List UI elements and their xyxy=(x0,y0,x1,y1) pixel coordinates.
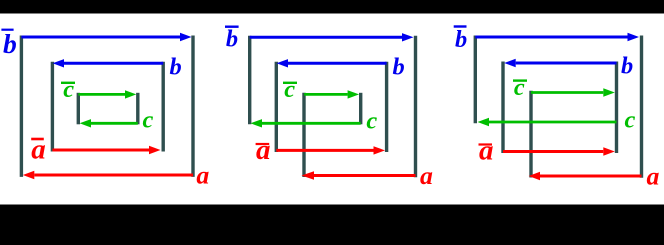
wire b-end down to abar-head d2 xyxy=(385,62,388,152)
arrow b d1 xyxy=(64,62,163,65)
arrow c-bar d1 xyxy=(78,93,125,96)
wire left vertical d3 xyxy=(474,36,477,124)
arrow a d3 xyxy=(540,175,642,178)
wire cbar-head down to c-end d2 xyxy=(359,93,362,125)
arrow a d2 xyxy=(314,174,416,177)
arrow b-bar d3 xyxy=(475,36,627,39)
wire cbar-start down to a-head d3 xyxy=(529,91,532,178)
svg-text:b: b xyxy=(3,28,17,59)
svg-text:c: c xyxy=(63,76,74,103)
arrow b d2 xyxy=(288,62,387,65)
arrow b-bar d2 xyxy=(250,36,402,39)
wire cbar-start down to c-head d1 xyxy=(77,93,80,125)
wire cbar-head down to c-end d1 xyxy=(136,93,139,125)
svg-text:a: a xyxy=(647,161,660,190)
bottom black bar xyxy=(0,205,664,245)
svg-text:b: b xyxy=(393,54,405,81)
svg-text:c: c xyxy=(143,106,154,133)
wire b-head down to abar-start d2 xyxy=(275,62,278,152)
arrow a-bar d1 xyxy=(52,149,149,152)
top black bar xyxy=(0,0,664,14)
svg-text:b: b xyxy=(170,54,182,81)
arrow b d3 xyxy=(516,62,617,65)
svg-text:a: a xyxy=(196,161,209,190)
svg-text:a: a xyxy=(256,134,271,166)
wire cbar-start down to a-head d2 xyxy=(302,93,305,177)
arrow c d3 xyxy=(489,121,617,124)
arrow a-bar d2 xyxy=(276,149,373,152)
arrow a-bar d3 xyxy=(503,150,603,153)
arrow a d1 xyxy=(34,174,193,177)
svg-text:a: a xyxy=(479,135,494,167)
arrow c d1 xyxy=(91,122,138,125)
arrow c d2 xyxy=(262,122,361,125)
wire right vertical d1 xyxy=(191,36,194,177)
wire left vertical d2 xyxy=(248,36,251,125)
wire b-head down to abar-start d1 xyxy=(51,62,54,152)
arrow c-bar d3 xyxy=(531,91,603,94)
svg-text:a: a xyxy=(420,161,433,190)
svg-text:b: b xyxy=(621,53,633,80)
svg-text:c: c xyxy=(625,107,636,134)
svg-text:c: c xyxy=(366,107,377,134)
arrow c-bar d2 xyxy=(304,93,347,96)
arrow b-bar d1 xyxy=(21,36,180,39)
wire b-head down to abar-start d3 xyxy=(501,62,504,154)
svg-text:b: b xyxy=(226,25,238,52)
wire b-end down through cbar-head and c-end to abar-head d3 xyxy=(615,62,618,154)
wire b-end down to abar-head d1 xyxy=(161,62,164,152)
svg-text:c: c xyxy=(514,74,525,101)
wire right vertical d3 xyxy=(640,36,643,178)
wire right vertical d2 xyxy=(414,36,417,177)
svg-text:b: b xyxy=(455,26,467,53)
svg-text:c: c xyxy=(284,76,295,103)
wire left vertical d1 xyxy=(20,36,23,177)
